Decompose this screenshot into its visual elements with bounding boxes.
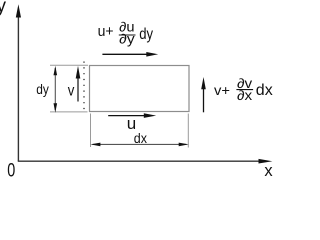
dy extension tick top [50,64,88,66]
u velocity arrow [108,113,156,118]
svg-text:v: v [68,83,75,100]
svg-text:x: x [264,162,273,179]
top label u+ du/dy dy [98,20,153,47]
svg-text:u+: u+ [98,24,114,40]
dx dimension line [90,143,188,147]
v velocity arrow [76,66,81,102]
fluid element rectangle [90,66,190,112]
svg-text:∂x: ∂x [237,88,252,103]
dy dimension line [54,66,58,113]
svg-text:dy: dy [139,26,153,43]
right arrow (v + dv/dx dx) [201,77,206,112]
svg-text:v+: v+ [214,82,230,98]
dotted construction line [83,62,85,113]
top arrow (u + du/dy dy) [102,52,158,57]
svg-text:y: y [0,0,7,17]
dy extension tick bottom [50,111,88,113]
svg-text:∂y: ∂y [119,32,135,47]
x-axis [18,159,273,164]
svg-text:dx: dx [256,82,273,99]
svg-text:0: 0 [7,161,15,179]
svg-text:dy: dy [36,81,49,97]
dx extension line right [187,114,189,148]
y-axis [16,4,21,161]
dx extension line left [90,114,92,148]
svg-text:dx: dx [134,130,147,146]
right label v+ dv/dx dx [214,76,273,103]
